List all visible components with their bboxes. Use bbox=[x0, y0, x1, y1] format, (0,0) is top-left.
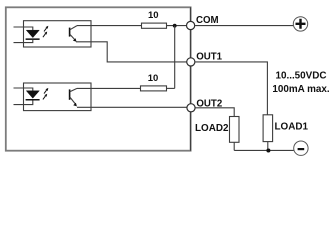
module frame bbox=[6, 7, 191, 150]
wire Q2 emitter to OUT2 bbox=[77, 106, 187, 108]
wire COM to plus supply bbox=[195, 25, 294, 27]
minus sign bbox=[298, 148, 305, 150]
terminal OUT2 bbox=[187, 104, 195, 112]
U2 phototransistor Q2 base bar bbox=[69, 89, 71, 99]
U2 light arrow b bbox=[43, 96, 46, 100]
resistor LOAD1 body bbox=[263, 115, 273, 142]
U2 LED D2 (triangle) bbox=[26, 91, 39, 98]
supply minus terminal bbox=[294, 141, 308, 155]
U1 light arrow b bbox=[43, 34, 46, 38]
wire Q2 collector to R2 bbox=[77, 87, 141, 89]
resistor R1 body bbox=[142, 23, 167, 28]
junction node B (loads tie) bbox=[266, 149, 270, 153]
U2 Q2 emitter with arrow bbox=[70, 97, 76, 105]
U1 LED cathode bar bbox=[26, 38, 40, 40]
svg-text:COM: COM bbox=[196, 15, 219, 26]
svg-text:LOAD2: LOAD2 bbox=[195, 123, 229, 134]
wire Q1 emitter to OUT1 bbox=[76, 42, 187, 62]
plus sign bbox=[296, 19, 306, 29]
terminal COM bbox=[187, 21, 195, 29]
svg-text:OUT1: OUT1 bbox=[196, 52, 222, 63]
wire R2 to node A bbox=[167, 87, 175, 89]
wire LOAD2 to bottom rail bbox=[233, 142, 235, 150]
svg-text:100mA max.: 100mA max. bbox=[272, 84, 330, 95]
wire OUT2 to LOAD2 bbox=[196, 108, 235, 117]
wire LOAD1 to bottom rail bbox=[267, 142, 269, 151]
bottom rail to minus supply bbox=[234, 149, 294, 151]
U1 phototransistor Q1 base bar bbox=[69, 28, 71, 37]
U1 LED cathode lead wire bbox=[14, 40, 33, 43]
U1 light arrow a bbox=[44, 28, 47, 32]
optocoupler U1 box bbox=[24, 21, 92, 47]
U1 Q1 collector bbox=[70, 26, 77, 30]
terminal rail (frame right edge, dark) bbox=[190, 7, 192, 150]
wire node A down to R2 output bbox=[174, 26, 176, 89]
U2 Q2 collector bbox=[70, 88, 77, 91]
wire OUT1 to LOAD1 bbox=[195, 62, 267, 115]
wire Q1 collector to R1 bbox=[77, 25, 142, 27]
U1 Q1 emitter with arrow bbox=[70, 34, 76, 40]
svg-text:10: 10 bbox=[148, 73, 159, 84]
optocoupler U2 box bbox=[24, 83, 92, 111]
U2 LED cathode lead wire bbox=[14, 101, 33, 105]
junction node A (R1/R2 tie) bbox=[173, 24, 177, 28]
supply plus terminal bbox=[293, 17, 307, 31]
resistor R2 body bbox=[141, 86, 167, 91]
U2 light arrow a bbox=[44, 90, 47, 94]
U2 LED cathode bar bbox=[26, 99, 40, 101]
terminal OUT1 bbox=[187, 58, 195, 66]
U2 LED anode lead wire bbox=[14, 88, 33, 91]
svg-text:LOAD1: LOAD1 bbox=[275, 122, 309, 133]
resistor LOAD2 body bbox=[230, 117, 240, 143]
U1 LED D1 (triangle) bbox=[26, 30, 39, 37]
svg-text:10: 10 bbox=[148, 10, 159, 21]
U1 LED anode lead wire bbox=[14, 27, 33, 30]
wire R1 to COM terminal bbox=[167, 25, 187, 27]
svg-text:10...50VDC: 10...50VDC bbox=[275, 71, 326, 82]
